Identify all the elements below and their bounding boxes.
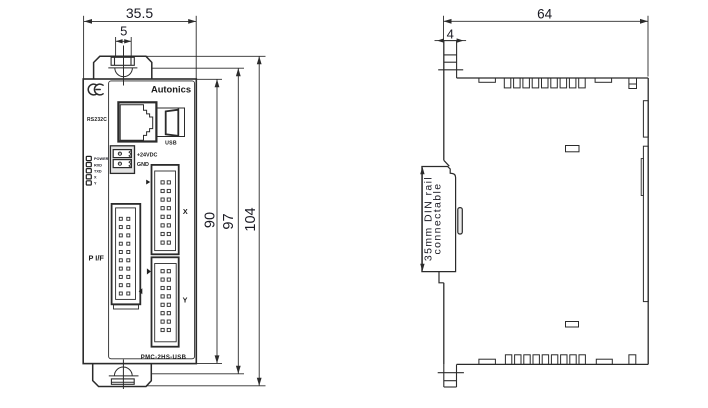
front inner panel (109, 81, 195, 359)
svg-text:POWER: POWER (94, 157, 109, 161)
right edge thin rect A (643, 101, 648, 137)
DIN rail block (422, 160, 462, 282)
top DIN latch (438, 41, 463, 78)
side body bottom edge (457, 363, 649, 365)
dimension 64 (444, 16, 649, 77)
power terminal block (110, 146, 134, 174)
right edge step rect C (641, 159, 643, 196)
bottom screw dome (114, 367, 132, 376)
RJ45 connector (118, 102, 156, 141)
svg-text:Y: Y (183, 296, 188, 305)
front body outline (83, 79, 196, 364)
side body top edge (457, 77, 649, 79)
svg-text:X: X (183, 207, 188, 216)
block top diagonal (444, 160, 450, 166)
svg-text:+24VDC: +24VDC (137, 152, 158, 158)
top screw axis (123, 46, 125, 86)
svg-text:64: 64 (537, 7, 553, 22)
side body right edge (647, 78, 649, 364)
top mounting tab (94, 56, 152, 79)
svg-text:GND: GND (137, 162, 149, 168)
Y connector pin1 marker (147, 268, 151, 274)
svg-text:P I/F: P I/F (88, 254, 104, 263)
svg-text:PMC-2HS-USB: PMC-2HS-USB (141, 355, 187, 361)
top vents (479, 78, 637, 89)
USB connector (156, 108, 184, 137)
svg-text:USB: USB (165, 140, 177, 146)
svg-text:97: 97 (221, 213, 237, 229)
top tab screw slot (111, 57, 134, 65)
svg-text:35.5: 35.5 (126, 5, 153, 21)
LED indicators (86, 156, 91, 185)
DIN block dimension line (420, 167, 424, 271)
svg-text:90: 90 (203, 212, 219, 228)
bottom screw flange line (109, 375, 139, 377)
svg-text:5: 5 (120, 24, 127, 39)
X connector (152, 165, 179, 254)
handle slot lower (566, 322, 579, 328)
X connector pin1 marker (146, 180, 150, 185)
dimension 4 (435, 38, 467, 42)
side body left wall upper (443, 41, 445, 161)
dim 5 extension lines (115, 37, 117, 57)
dimension 90 (197, 79, 222, 363)
svg-text:104: 104 (243, 207, 259, 231)
right edge thin rect B (643, 146, 648, 301)
P I/F pins (119, 217, 130, 295)
bottom DIN latch (438, 364, 464, 387)
handle slot upper (566, 146, 580, 152)
dimension 5 (116, 39, 132, 43)
LED labels (94, 157, 109, 185)
bottom screw axis (122, 359, 124, 389)
Y connector (152, 257, 179, 346)
bottom vents (479, 355, 636, 365)
svg-text:Autonics: Autonics (151, 83, 191, 94)
dimension 35.5 (84, 16, 197, 79)
top split square (629, 78, 637, 89)
svg-text:connectable: connectable (432, 182, 444, 254)
P I/F pin1 marker (139, 288, 143, 294)
svg-text:RS232C: RS232C (87, 117, 107, 123)
svg-text:4: 4 (447, 27, 454, 42)
top screw flange line (108, 67, 137, 69)
CE mark (88, 84, 103, 95)
dimension 104 (146, 56, 266, 386)
bottom screw body (111, 379, 134, 384)
top screw dome (115, 68, 133, 77)
DIN spring clip (458, 208, 463, 234)
P I/F connector (112, 204, 141, 304)
side body left wall lower (443, 283, 445, 365)
block bottom step (439, 272, 444, 283)
svg-text:RXD: RXD (94, 163, 102, 167)
bottom mounting tab (93, 364, 152, 387)
svg-text:TXD: TXD (94, 169, 102, 173)
dimension 97 (151, 68, 244, 374)
bottom small square (629, 355, 636, 365)
